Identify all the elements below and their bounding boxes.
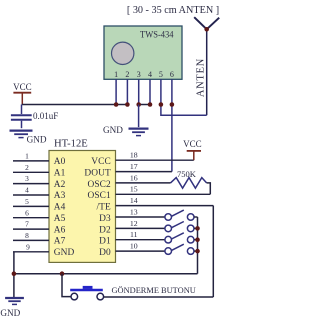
wire TWS pin3 <box>138 79 140 104</box>
svg-text:18: 18 <box>130 151 138 160</box>
svg-text:5: 5 <box>25 197 29 206</box>
module TWS-434 <box>104 26 182 79</box>
svg-text:VCC: VCC <box>91 157 111 167</box>
svg-text:1: 1 <box>25 152 29 161</box>
svg-text:A4: A4 <box>54 203 66 213</box>
svg-text:17: 17 <box>130 162 138 171</box>
wire TWS pin1 <box>115 79 117 104</box>
wire TWS pin2 <box>126 79 128 104</box>
switch S4 (D0) <box>165 244 198 254</box>
antenna <box>194 17 219 115</box>
svg-text:GND: GND <box>103 125 123 135</box>
IC U1 HT-12E body <box>49 151 116 263</box>
svg-text:3: 3 <box>137 70 141 79</box>
svg-text:2: 2 <box>25 163 29 172</box>
svg-text:A5: A5 <box>54 214 66 224</box>
svg-text:3: 3 <box>25 174 29 183</box>
svg-text:8: 8 <box>25 231 29 240</box>
svg-text:GÖNDERME BUTONU: GÖNDERME BUTONU <box>112 286 196 295</box>
power VCC left <box>13 82 32 104</box>
svg-text:A7: A7 <box>54 237 66 247</box>
wire bridge pins 3-4 <box>139 104 150 106</box>
power VCC right (pin 18) <box>183 139 202 160</box>
svg-text:9: 9 <box>26 242 30 251</box>
svg-text:A3: A3 <box>54 191 66 201</box>
wire TWS pins 3-4 to ground <box>138 105 140 128</box>
svg-text:4: 4 <box>148 70 152 79</box>
svg-text:OSC1: OSC1 <box>87 191 111 201</box>
ground (bottom left) <box>5 298 24 304</box>
switch S3 (D1) <box>165 233 198 243</box>
svg-text:15: 15 <box>130 185 138 194</box>
svg-text:D2: D2 <box>99 225 111 235</box>
svg-text:GND: GND <box>0 308 20 318</box>
svg-text:[ 30 - 35 cm ANTEN ]: [ 30 - 35 cm ANTEN ] <box>127 5 219 16</box>
pushbutton SW (gonderme) <box>70 286 103 300</box>
wire /TE pin14 down <box>212 206 214 297</box>
svg-text:7: 7 <box>25 220 29 229</box>
wire button to /TE <box>104 296 214 298</box>
svg-text:11: 11 <box>130 230 138 239</box>
left pin numbers 1-9 <box>25 152 30 252</box>
svg-text:ANTEN: ANTEN <box>195 58 206 97</box>
svg-text:750K: 750K <box>177 169 197 179</box>
svg-text:TWS-434: TWS-434 <box>140 31 174 41</box>
wire resistor to OSC1 <box>207 183 211 194</box>
right pin stubs 18-10 <box>116 160 214 251</box>
svg-text:D3: D3 <box>99 214 111 224</box>
svg-text:GND: GND <box>27 135 47 145</box>
wire TWS pin6 to DOUT <box>171 79 173 171</box>
svg-text:6: 6 <box>170 70 174 79</box>
IC pin name labels <box>54 157 111 258</box>
wire TWS pin4 <box>149 79 151 104</box>
wire ground rail <box>14 273 198 275</box>
wire IC GND pin9 down <box>13 252 15 297</box>
svg-text:HT-12E: HT-12E <box>54 138 88 149</box>
svg-text:1: 1 <box>114 70 118 79</box>
svg-text:A1: A1 <box>54 169 66 179</box>
svg-text:GND: GND <box>54 248 75 258</box>
svg-text:0.01uF: 0.01uF <box>33 111 58 121</box>
junction dot button drop <box>60 271 65 276</box>
wire VCC bus <box>22 104 128 106</box>
junction dot rail left <box>12 271 17 276</box>
wire switch common <box>197 217 199 274</box>
svg-text:A6: A6 <box>54 225 66 235</box>
svg-text:12: 12 <box>130 219 138 228</box>
junction dots switch common <box>195 226 200 253</box>
svg-text:14: 14 <box>130 196 138 205</box>
svg-text:A0: A0 <box>54 157 66 167</box>
svg-text:VCC: VCC <box>13 82 32 92</box>
capacitor C1 0.01uF <box>11 105 32 129</box>
junction dots TWS pins <box>114 102 174 107</box>
svg-text:A2: A2 <box>54 180 66 190</box>
svg-text:D1: D1 <box>99 237 111 247</box>
ground (capacitor) <box>10 131 33 138</box>
switch S1 (D3) <box>165 210 198 220</box>
ground (TWS) <box>129 129 149 136</box>
svg-text:DOUT: DOUT <box>84 169 111 179</box>
TWS pin numbers 1-6 <box>114 70 174 79</box>
right pin numbers 18-10 <box>130 151 138 251</box>
left pin stubs 1-9 <box>13 161 49 252</box>
svg-text:VCC: VCC <box>183 139 202 149</box>
svg-text:13: 13 <box>130 207 138 216</box>
svg-text:2: 2 <box>125 70 129 79</box>
svg-text:4: 4 <box>25 186 29 195</box>
svg-text:16: 16 <box>130 173 138 182</box>
svg-text:5: 5 <box>159 70 163 79</box>
svg-text:10: 10 <box>130 242 138 251</box>
svg-text:6: 6 <box>25 208 29 217</box>
wire rail to button <box>62 274 71 297</box>
svg-text:D0: D0 <box>99 248 111 258</box>
svg-text:OSC2: OSC2 <box>87 180 111 190</box>
wire TWS pin5 to antenna <box>161 79 207 115</box>
switch S2 (D2) <box>165 222 198 232</box>
svg-text:/TE: /TE <box>96 203 111 213</box>
